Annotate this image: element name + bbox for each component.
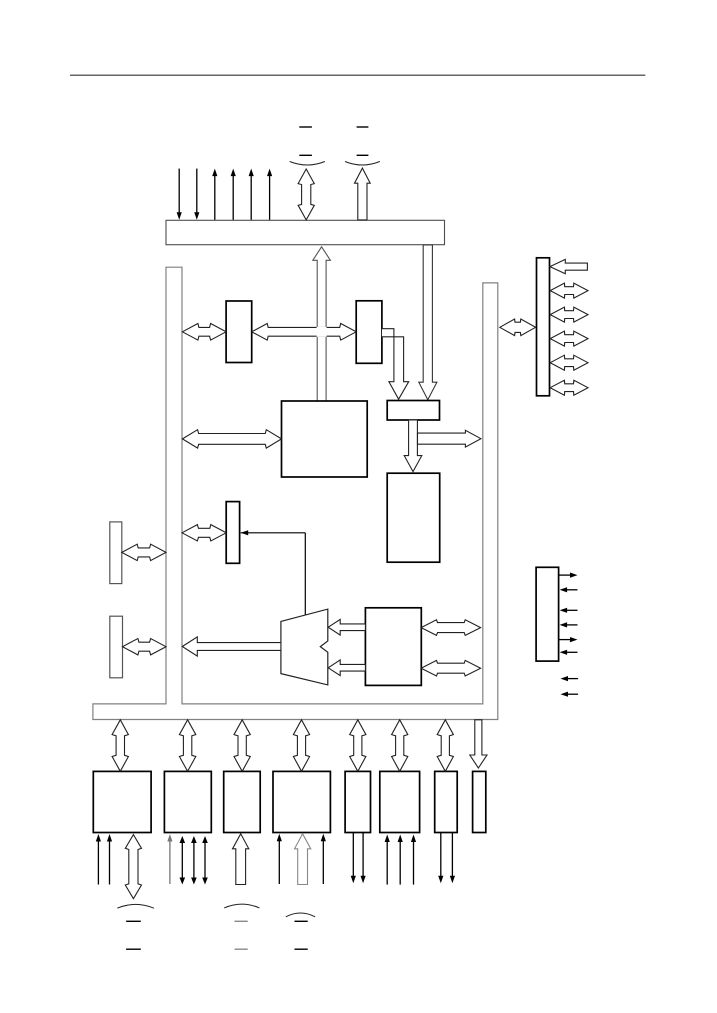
b4 up arrow 2 [322,838,324,884]
interrupt rect [536,567,559,661]
b3 big up arrow [233,834,249,885]
data bus rectangle [166,220,445,244]
label dash [235,920,248,922]
interrupt arrow 2 [564,589,577,591]
double arrow registers to bar upper [421,620,481,636]
port double arrow 5 [550,380,588,395]
label dash [299,126,312,128]
arrow registers to mux lower [328,660,365,676]
interrupt arrow 3 [564,609,577,611]
long arrow mux to bar [182,637,281,656]
b7 down arrow 2 [451,832,453,879]
bus double arrow block 4 [293,720,309,772]
bus double arrow block 5 [350,720,366,772]
label dash [126,948,141,950]
b2 double arrow 2 [193,840,195,882]
L arrow block to decode rect [382,329,409,400]
floating arrow 1 [565,678,578,680]
b7 down arrow 1 [440,832,442,879]
bus double arrow block 1 [112,720,128,772]
bus double arrow block 3 [234,720,250,772]
label dash [357,126,369,128]
double arrow bar to right port [500,319,536,336]
b1 up arrow 2 [109,839,111,885]
label arc b3 [286,913,315,917]
pin arrow up 4 [269,173,271,220]
label arc b1 [117,904,154,908]
pin arrow down 1 [178,169,180,216]
right arrow decode to bar [418,430,481,447]
b6 up arrow 3 [413,839,415,885]
label arc b2 [224,904,259,908]
horizontal rule [70,74,645,76]
peripheral block 8 [473,771,486,832]
label arc right [345,162,380,166]
single left arrow top [550,259,588,273]
label arc left [290,162,325,166]
double arrow left block to right block [252,324,357,341]
peripheral block 3 [224,771,261,832]
label dash [295,948,308,950]
left port bar 1 [110,522,122,584]
registers block [365,608,421,686]
double arrow port1 to bar [122,544,166,560]
bus-to-CPU vertical arrow [313,247,331,401]
bus single down arrow block 8 [470,720,487,768]
label dash [295,920,308,922]
b1 big double arrow [125,835,141,899]
interrupt arrow 5 [559,639,573,641]
b2 up arrow [169,839,171,885]
label dash [299,154,312,156]
pin arrow down 2 [196,169,198,216]
crossing gap [317,327,327,337]
label dash [357,154,369,156]
program memory block [387,473,440,562]
right port rect [537,258,550,396]
double arrow bar to small block [182,525,226,541]
peripheral block 2 [164,771,211,832]
arrowhead into small block [241,530,249,535]
bus double arrow block 6 [392,720,408,772]
floating arrow 2 [565,693,578,695]
wire to small block [241,532,306,534]
b4 big up arrow [295,834,311,885]
double arrow port2 to bar [123,639,167,655]
decode rect [387,401,439,421]
bus double arrow (supply) [298,169,314,220]
port double arrow 3 [550,331,588,346]
interrupt arrow 1 [559,574,573,576]
bus single up arrow [355,168,371,220]
b6 up arrow 1 [386,839,388,885]
peripheral block 4 [273,771,330,832]
double arrow registers to bar lower [421,660,481,676]
double arrow bar to left block [182,324,226,341]
down arrow decode to block [404,420,422,472]
block GPR-right [356,301,382,364]
label dash [126,920,141,922]
ALU mux [281,609,328,685]
bus double arrow block 2 [179,720,195,772]
peripheral block 6 [380,771,420,832]
block GPR-left [226,301,252,363]
interrupt arrow 4 [564,624,577,626]
CPU block [282,401,368,477]
double arrow bar to CPU [182,430,281,448]
peripheral block 5 [345,771,370,832]
arrow registers to mux upper [328,619,365,635]
b2 double arrow 1 [181,840,183,882]
interrupt arrow 6 [564,651,577,653]
frame bus (left bar, right bar, bottom bus) [93,267,498,719]
b5 down arrow 2 [362,832,364,879]
port double arrow 2 [550,307,588,322]
b4 up arrow 1 [278,838,280,884]
port double arrow 4 [550,355,588,370]
pin arrow up 3 [250,173,252,220]
bus down arrow to decode rect [419,245,437,400]
b2 double arrow 3 [204,840,206,882]
peripheral block 1 [93,771,151,832]
pin arrow up 1 [214,173,216,220]
b1 up arrow 1 [97,839,99,885]
port double arrow 1 [550,283,588,298]
b5 down arrow 1 [352,832,354,879]
b6 up arrow 2 [399,839,401,885]
left port bar 2 [110,616,123,678]
peripheral block 7 [435,771,458,832]
bus double arrow block 7 [437,720,453,772]
label dash [235,948,248,950]
pin arrow up 2 [232,173,234,220]
small register block [226,502,239,564]
